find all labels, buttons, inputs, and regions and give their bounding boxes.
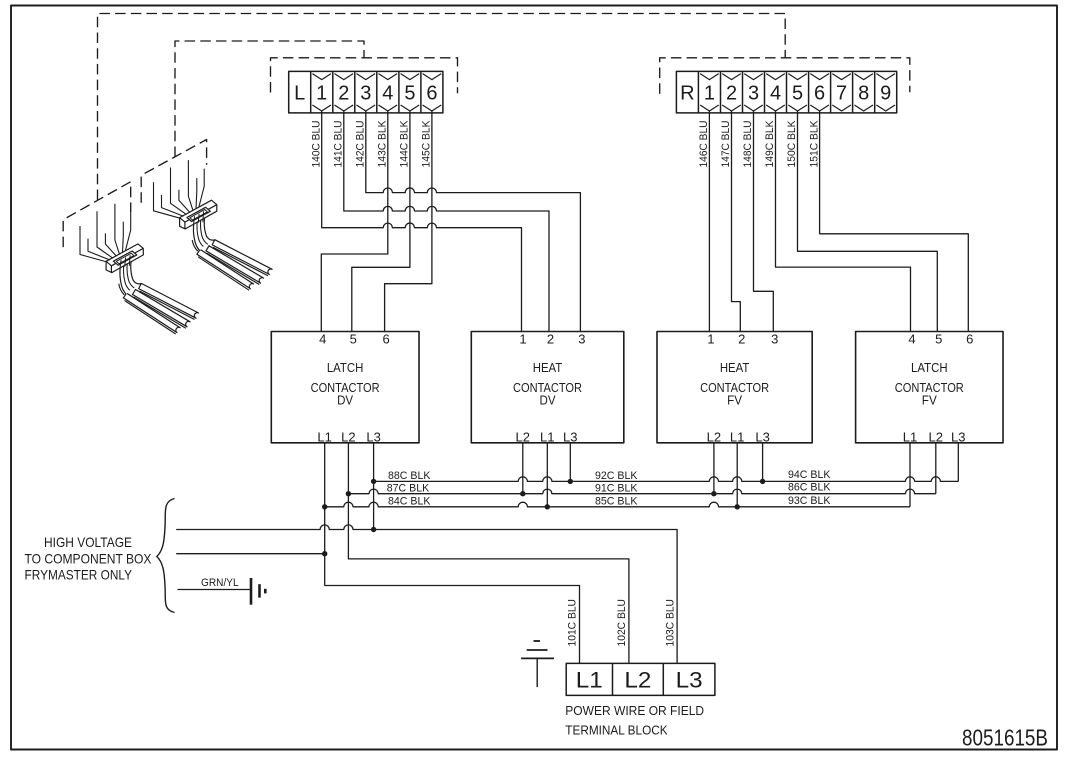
svg-text:5: 5 (350, 331, 357, 346)
connector L pin 1 (312, 74, 331, 111)
wire LATCH FV L3 drop (957, 443, 959, 482)
connector L pin 2 (335, 74, 354, 111)
svg-text:L2: L2 (516, 429, 531, 444)
svg-text:6: 6 (426, 83, 437, 105)
svg-text:L1: L1 (317, 429, 332, 444)
svg-text:3: 3 (360, 83, 371, 105)
svg-text:L: L (294, 83, 305, 105)
wire 142C BLU (355, 111, 581, 332)
svg-text:2: 2 (726, 83, 737, 105)
svg-text:9: 9 (880, 83, 891, 105)
svg-text:2: 2 (338, 83, 349, 105)
svg-text:POWER WIRE OR FIELD: POWER WIRE OR FIELD (565, 703, 704, 718)
svg-text:FRYMASTER ONLY: FRYMASTER ONLY (25, 568, 133, 583)
contactor LATCH CONTACTOR FV (856, 332, 1003, 443)
svg-text:94C BLK: 94C BLK (788, 469, 831, 481)
svg-text:145C BLK: 145C BLK (421, 120, 433, 168)
svg-text:1: 1 (316, 83, 327, 105)
contactor HEAT CONTACTOR FV (657, 332, 812, 443)
wire LATCH DV L2 to 102C (348, 443, 629, 664)
ground (521, 641, 554, 687)
svg-text:LATCH: LATCH (327, 360, 364, 375)
svg-text:144C BLK: 144C BLK (399, 120, 411, 168)
wire 144C BLK (352, 111, 411, 332)
svg-text:141C BLU: 141C BLU (333, 121, 345, 168)
wire LATCH FV L2 drop (935, 443, 937, 494)
svg-text:TERMINAL BLOCK: TERMINAL BLOCK (565, 723, 667, 738)
svg-text:L3: L3 (951, 429, 966, 444)
svg-text:3: 3 (578, 331, 585, 346)
wire 151C BLK (808, 111, 968, 332)
high-voltage feed wire A to 103C (176, 525, 677, 664)
connector R pin 7 (832, 74, 851, 111)
svg-text:LATCH: LATCH (911, 360, 948, 375)
wire HEAT DV L2 drop (522, 443, 524, 494)
connector L body (289, 71, 443, 113)
connector R pin 4 (766, 74, 785, 111)
bus wire 88C/92C/94C BLK (371, 469, 958, 484)
svg-text:HEAT: HEAT (720, 360, 750, 375)
svg-text:5: 5 (935, 331, 942, 346)
svg-text:1: 1 (704, 83, 715, 105)
heating element FV (180, 200, 273, 290)
wire 140C BLU (310, 111, 521, 332)
heating element FV lead wires (154, 160, 205, 218)
svg-text:149C BLK: 149C BLK (764, 120, 776, 168)
svg-text:3: 3 (748, 83, 759, 105)
svg-text:2: 2 (547, 331, 554, 346)
connector L pin 5 (401, 74, 420, 111)
svg-text:85C BLK: 85C BLK (595, 496, 638, 508)
wire HEAT DV L3 drop (569, 443, 571, 482)
wire HEAT FV L2 drop (713, 443, 715, 494)
svg-text:L1: L1 (903, 429, 918, 444)
connector L pin 3 (357, 74, 376, 111)
heating element DV lead wires (80, 204, 131, 262)
label HIGH VOLTAGE TO COMPONENT BOX FRYMASTER ONLY (25, 535, 152, 583)
svg-text:140C BLU: 140C BLU (310, 121, 322, 168)
svg-text:HEAT: HEAT (533, 360, 563, 375)
bus wire 84C/85C/93C BLK (322, 495, 910, 510)
element DV harness plane dashed (63, 182, 131, 247)
svg-text:L2: L2 (707, 429, 722, 444)
connector R pin 1 (700, 74, 719, 111)
svg-text:142C BLU: 142C BLU (355, 121, 367, 168)
bus wire 87C/91C/86C BLK (346, 482, 936, 497)
heating element DV (106, 244, 199, 334)
svg-text:6: 6 (382, 331, 389, 346)
svg-text:7: 7 (836, 83, 847, 105)
wire HEAT DV L1 drop (546, 443, 548, 507)
svg-text:102C BLU: 102C BLU (616, 599, 628, 647)
svg-text:151C BLK: 151C BLK (808, 120, 820, 168)
svg-text:L3: L3 (755, 429, 770, 444)
wire 141C BLU (333, 111, 550, 332)
svg-text:3: 3 (771, 331, 778, 346)
contactor HEAT CONTACTOR DV (471, 332, 624, 443)
element FV harness plane dashed (141, 140, 206, 203)
svg-text:143C BLK: 143C BLK (377, 120, 389, 168)
svg-text:148C BLU: 148C BLU (742, 121, 754, 168)
wire HEAT FV L1 drop (736, 443, 738, 507)
connector L dashed outline (271, 58, 458, 94)
svg-text:103C BLU: 103C BLU (664, 599, 676, 647)
connector R pin 2 (722, 74, 741, 111)
svg-text:L3: L3 (366, 429, 381, 444)
wire harness dashed run (top) (98, 14, 786, 201)
svg-text:6: 6 (966, 331, 973, 346)
wire harness dashed run (middle) (175, 41, 364, 157)
svg-text:FV: FV (727, 392, 742, 407)
high-voltage feed wire B (176, 551, 327, 556)
svg-text:8: 8 (858, 83, 869, 105)
connector R pin 5 (788, 74, 807, 111)
svg-text:5: 5 (404, 83, 415, 105)
wire 143C BLK (321, 111, 388, 332)
svg-text:101C BLU: 101C BLU (567, 599, 579, 647)
svg-text:L1: L1 (540, 429, 555, 444)
svg-text:146C BLU: 146C BLU (698, 121, 710, 168)
wire GRN/YL with ground termination (178, 577, 266, 605)
wire LATCH DV L1 to 101C (325, 443, 580, 664)
label POWER WIRE OR FIELD TERMINAL BLOCK (565, 703, 704, 737)
connector R pin 9 (876, 74, 895, 111)
svg-text:147C BLU: 147C BLU (720, 121, 732, 168)
connector L pin 6 (423, 74, 442, 111)
svg-text:2: 2 (738, 331, 745, 346)
connector R body (676, 71, 896, 113)
svg-text:4: 4 (770, 83, 781, 105)
brace (157, 499, 175, 613)
svg-text:93C BLK: 93C BLK (788, 495, 831, 507)
wire 147C BLU (720, 111, 740, 332)
svg-text:92C BLK: 92C BLK (595, 470, 638, 482)
wire 148C BLU (742, 111, 773, 332)
svg-text:HIGH VOLTAGE: HIGH VOLTAGE (44, 535, 132, 550)
svg-text:4: 4 (319, 331, 326, 346)
svg-text:L3: L3 (563, 429, 578, 444)
svg-text:4: 4 (382, 83, 393, 105)
svg-text:4: 4 (908, 331, 915, 346)
svg-text:L2: L2 (929, 429, 944, 444)
svg-text:DV: DV (337, 392, 353, 407)
svg-text:L3: L3 (676, 668, 703, 693)
terminal block POWER WIRE OR FIELD (566, 663, 715, 695)
svg-text:1: 1 (707, 331, 714, 346)
wire 145C BLK (385, 111, 433, 332)
svg-text:L1: L1 (730, 429, 745, 444)
svg-text:87C BLK: 87C BLK (387, 483, 430, 495)
svg-text:5: 5 (792, 83, 803, 105)
svg-text:DV: DV (540, 392, 556, 407)
svg-text:8051615B: 8051615B (962, 725, 1048, 751)
svg-text:GRN/YL: GRN/YL (201, 577, 239, 589)
svg-text:R: R (680, 83, 694, 105)
wire 150C BLK (786, 111, 937, 332)
svg-text:L1: L1 (576, 668, 603, 693)
wire HEAT FV L3 drop (762, 443, 764, 482)
svg-text:L2: L2 (341, 429, 356, 444)
wire LATCH FV L1 drop (909, 443, 911, 507)
svg-text:86C BLK: 86C BLK (788, 482, 831, 494)
svg-text:150C BLK: 150C BLK (786, 120, 798, 168)
contactor LATCH CONTACTOR DV (271, 332, 419, 443)
wire LATCH DV L3 drop (373, 443, 375, 530)
svg-text:1: 1 (519, 331, 526, 346)
connector R pin 3 (744, 74, 763, 111)
connector L pin 4 (379, 74, 398, 111)
connector R pin 6 (810, 74, 829, 111)
svg-text:88C BLK: 88C BLK (388, 470, 431, 482)
svg-text:84C BLK: 84C BLK (388, 496, 431, 508)
svg-text:L2: L2 (624, 668, 651, 693)
connector R dashed outline (660, 58, 910, 94)
connector R pin 8 (854, 74, 873, 111)
svg-text:6: 6 (814, 83, 825, 105)
svg-text:FV: FV (922, 392, 937, 407)
svg-text:91C BLK: 91C BLK (595, 483, 638, 495)
wire 146C BLU (698, 111, 710, 332)
svg-text:TO COMPONENT BOX: TO COMPONENT BOX (25, 551, 152, 566)
wire 149C BLK (764, 111, 910, 332)
